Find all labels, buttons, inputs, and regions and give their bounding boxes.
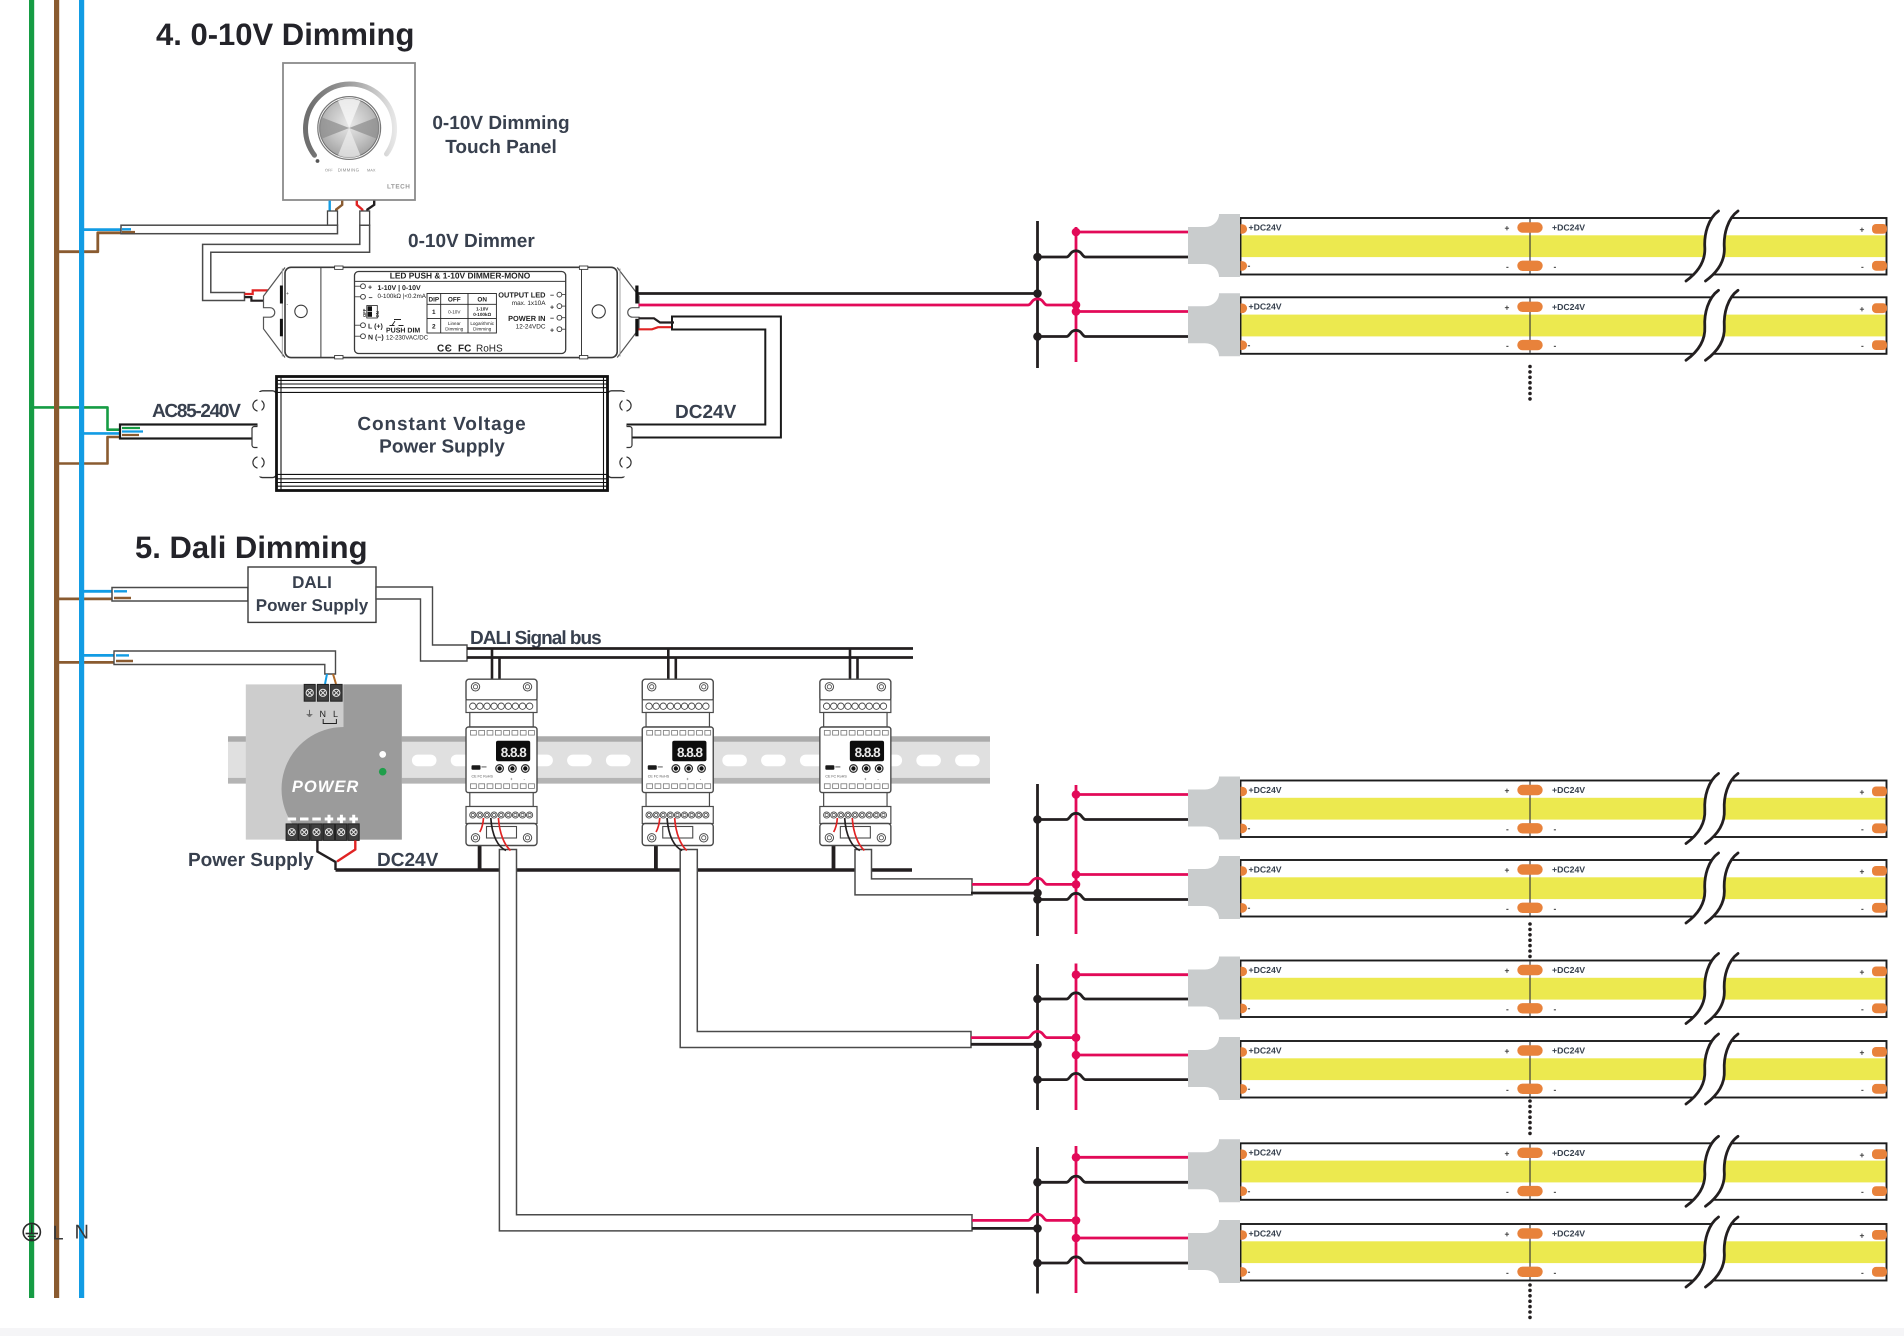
svg-text:N: N [320,709,327,719]
svg-text:1-10V | 0-10V: 1-10V | 0-10V [378,284,422,292]
svg-text:12-230VAC/DC: 12-230VAC/DC [386,335,429,342]
svg-text:Power Supply: Power Supply [379,437,505,458]
svg-text:AC85-240V: AC85-240V [152,401,241,422]
svg-text:FC: FC [458,344,471,355]
svg-text:+: + [368,284,372,291]
svg-text:DALI Signal bus: DALI Signal bus [470,628,601,649]
svg-text:DC24V: DC24V [675,402,737,423]
svg-text:Constant Voltage: Constant Voltage [357,414,526,435]
svg-text:POWER: POWER [292,778,359,796]
svg-text:N (−): N (−) [368,333,384,341]
svg-text:max. 1x10A: max. 1x10A [512,300,546,307]
svg-text:0-10V: 0-10V [448,310,461,315]
svg-text:1: 1 [432,309,436,316]
svg-text:4. 0-10V Dimming: 4. 0-10V Dimming [156,17,414,52]
svg-text:OFF: OFF [325,167,333,172]
svg-text:OFF: OFF [362,308,367,317]
svg-text:N: N [75,1222,89,1244]
svg-text:5. Dali Dimming: 5. Dali Dimming [135,530,368,565]
svg-text:+: + [550,327,554,334]
svg-text:2: 2 [432,324,436,331]
svg-text:12-24VDC: 12-24VDC [516,323,546,330]
svg-text:L (+): L (+) [368,322,383,330]
svg-text:CЄ: CЄ [437,344,452,355]
svg-text:0-10V Dimming: 0-10V Dimming [432,113,569,134]
svg-text:DC24V: DC24V [377,850,439,871]
svg-text:L: L [53,1223,64,1245]
svg-text:+: + [286,291,289,297]
svg-text:+: + [550,304,554,311]
svg-text:−: − [369,295,373,302]
svg-text:Dimming: Dimming [473,326,492,331]
svg-text:−: − [550,316,554,323]
svg-text:POWER IN: POWER IN [508,314,545,323]
svg-text:Touch Panel: Touch Panel [445,137,557,158]
svg-text:0-100kΩ: 0-100kΩ [473,312,491,317]
svg-text:⏚: ⏚ [305,709,314,719]
svg-text:Dimming: Dimming [445,326,464,331]
svg-text:PUSH DIM: PUSH DIM [386,328,420,335]
svg-text:DIMMING: DIMMING [338,167,360,172]
svg-text:LED PUSH & 1-10V DIMMER-MONO: LED PUSH & 1-10V DIMMER-MONO [390,271,531,281]
svg-text:OUTPUT LED: OUTPUT LED [498,291,546,300]
svg-text:L: L [333,709,338,719]
svg-text:LTECH: LTECH [387,184,410,191]
svg-text:−: − [550,292,554,299]
svg-text:Power Supply: Power Supply [256,596,369,615]
svg-text:Linear: Linear [448,321,461,326]
svg-text:Logarithmic: Logarithmic [470,321,494,326]
svg-text:DIP: DIP [428,296,439,303]
svg-text:0-10V Dimmer: 0-10V Dimmer [408,231,535,252]
svg-text:ON: ON [375,311,380,317]
svg-text:MAX: MAX [367,167,376,172]
svg-text:Power Supply: Power Supply [188,850,314,871]
svg-text:ON: ON [477,296,487,303]
svg-text:1-10V: 1-10V [476,307,489,312]
svg-text:DALI: DALI [292,573,332,592]
svg-text:OFF: OFF [448,296,461,303]
svg-text:RoHS: RoHS [476,344,503,355]
svg-text:0-100kΩ |<0.2mA: 0-100kΩ |<0.2mA [378,293,427,300]
